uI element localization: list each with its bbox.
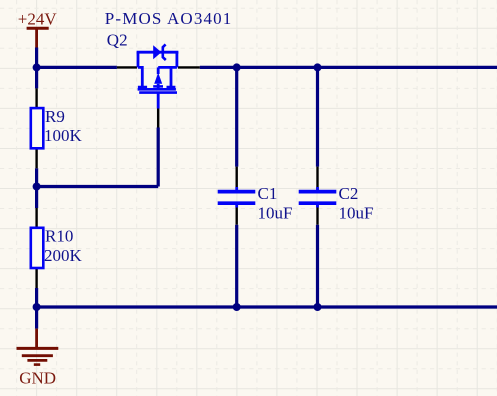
junction: bottom rail at C2 <box>314 303 322 311</box>
wire: C1 top <box>235 67 238 166</box>
wire: R9 bottom to junction <box>35 168 38 186</box>
svg-text:Q2: Q2 <box>107 31 128 50</box>
body: top bar with diode loop <box>137 51 179 54</box>
wire: gate net horizontal <box>37 185 159 188</box>
wire: gate net vertical <box>157 128 160 187</box>
svg-text:R10: R10 <box>45 226 73 245</box>
wire: top rail left segment <box>37 66 117 69</box>
junction: bottom rail at GND <box>33 303 41 311</box>
bulk tie horizontal <box>158 66 177 69</box>
wire: top rail right segment <box>200 66 497 69</box>
contact feet <box>138 86 147 89</box>
junction: bottom rail at C1 <box>233 303 241 311</box>
right contact stub <box>170 67 173 86</box>
svg-text:GND: GND <box>19 369 56 388</box>
svg-text:+24V: +24V <box>18 9 58 28</box>
junction: divider node <box>33 183 41 191</box>
resistor R9 <box>31 88 83 168</box>
capacitor C2 <box>299 167 374 225</box>
svg-text:C1: C1 <box>258 184 278 203</box>
channel bar <box>138 88 176 91</box>
wire: GND stem <box>35 307 38 329</box>
ground GND <box>17 329 59 388</box>
pin: source (right) <box>178 66 200 68</box>
wire: C2 top <box>316 67 319 166</box>
wire: R10 top <box>35 187 38 209</box>
wire: C1 bottom <box>235 225 238 307</box>
wire: R9 top <box>35 67 38 88</box>
bulk arrow stem <box>157 67 160 74</box>
gate bar <box>139 91 177 94</box>
svg-text:R9: R9 <box>45 107 65 126</box>
junction: top rail at +24V <box>33 63 41 71</box>
capacitor C1 <box>218 167 293 225</box>
svg-text:P-MOS AO3401: P-MOS AO3401 <box>105 9 233 28</box>
resistor R10 <box>31 208 83 288</box>
left contact jog <box>138 67 142 86</box>
svg-text:10uF: 10uF <box>339 204 374 223</box>
svg-text:10uF: 10uF <box>258 204 293 223</box>
pin: drain (left) <box>117 66 137 68</box>
wire: R10 bottom <box>35 288 38 307</box>
wire: bottom rail <box>37 305 497 308</box>
junction: top rail at C1 <box>233 63 241 71</box>
svg-text:C2: C2 <box>339 184 359 203</box>
power port +24V <box>18 9 58 47</box>
transistor Q2 P-MOS AO3401 <box>105 9 233 128</box>
gate stem <box>157 93 160 109</box>
svg-text:100K: 100K <box>44 126 83 145</box>
body diode triangle <box>153 45 161 59</box>
body diode cathode bar with ticks <box>163 44 166 60</box>
wire: C2 bottom <box>316 225 319 307</box>
bulk arrow <box>154 73 162 84</box>
junction: top rail at C2 <box>314 63 322 71</box>
pin: gate (down) <box>157 108 159 128</box>
svg-text:200K: 200K <box>44 246 83 265</box>
wire: +24V stem to top rail <box>35 48 38 68</box>
